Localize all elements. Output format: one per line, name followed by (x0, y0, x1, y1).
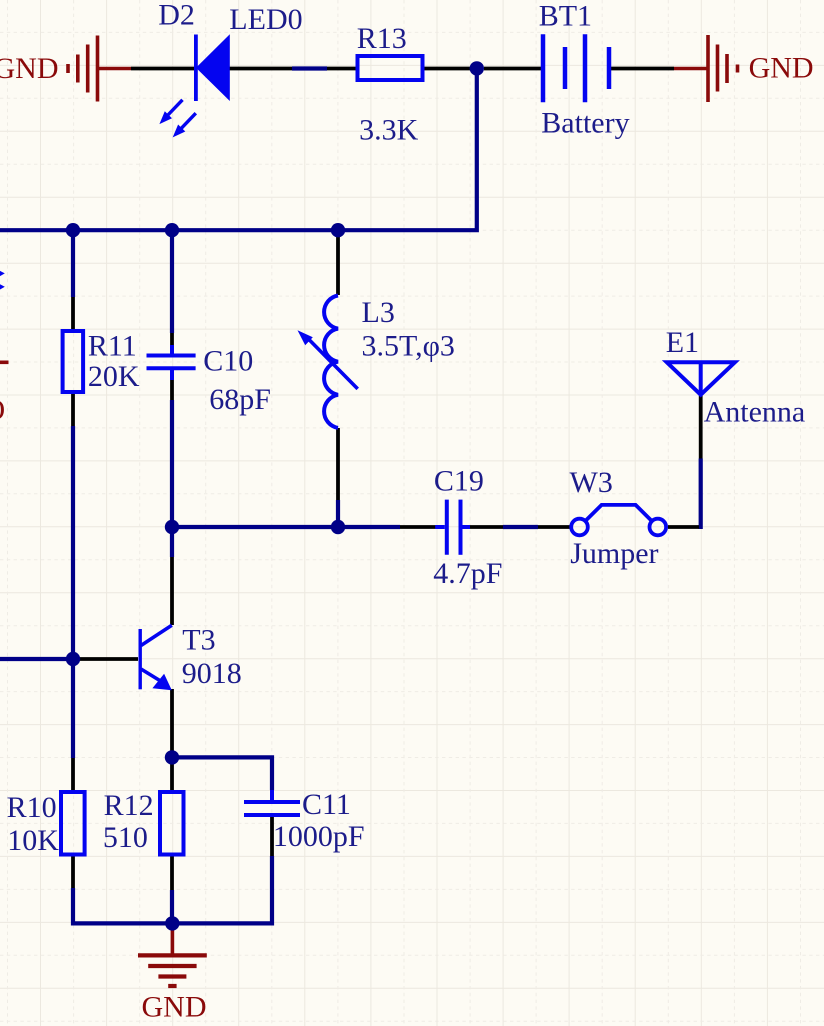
svg-text:Jumper: Jumper (570, 537, 658, 570)
svg-text:L3: L3 (362, 296, 395, 329)
svg-text:Battery: Battery (541, 107, 629, 140)
svg-text:68pF: 68pF (209, 383, 271, 416)
svg-text:C11: C11 (302, 788, 351, 821)
svg-text:O: O (0, 394, 5, 427)
svg-text:W3: W3 (570, 466, 613, 499)
svg-text:Antenna: Antenna (704, 396, 806, 429)
svg-text:C19: C19 (434, 465, 484, 498)
svg-text:3.3K: 3.3K (359, 114, 419, 147)
svg-text:4.7pF: 4.7pF (433, 557, 502, 590)
svg-text:R13: R13 (357, 22, 407, 55)
svg-text:GND: GND (749, 52, 814, 85)
svg-text:3.5T,φ3: 3.5T,φ3 (362, 330, 455, 363)
svg-text:10K: 10K (7, 824, 59, 857)
svg-text:E1: E1 (666, 326, 699, 359)
svg-text:R12: R12 (104, 789, 154, 822)
svg-text:T3: T3 (182, 624, 215, 657)
svg-text:9018: 9018 (182, 657, 242, 690)
svg-text:LED0: LED0 (229, 3, 302, 36)
svg-text:20K: 20K (88, 360, 140, 393)
svg-text:R11: R11 (88, 330, 137, 363)
svg-text:GND: GND (142, 991, 207, 1024)
svg-text:R10: R10 (7, 791, 57, 824)
svg-text:GND: GND (0, 52, 59, 85)
svg-text:D2: D2 (158, 0, 195, 31)
svg-text:C10: C10 (203, 345, 253, 378)
svg-text:1000pF: 1000pF (273, 820, 365, 853)
svg-text:BT1: BT1 (539, 0, 592, 33)
svg-text:510: 510 (103, 821, 148, 854)
